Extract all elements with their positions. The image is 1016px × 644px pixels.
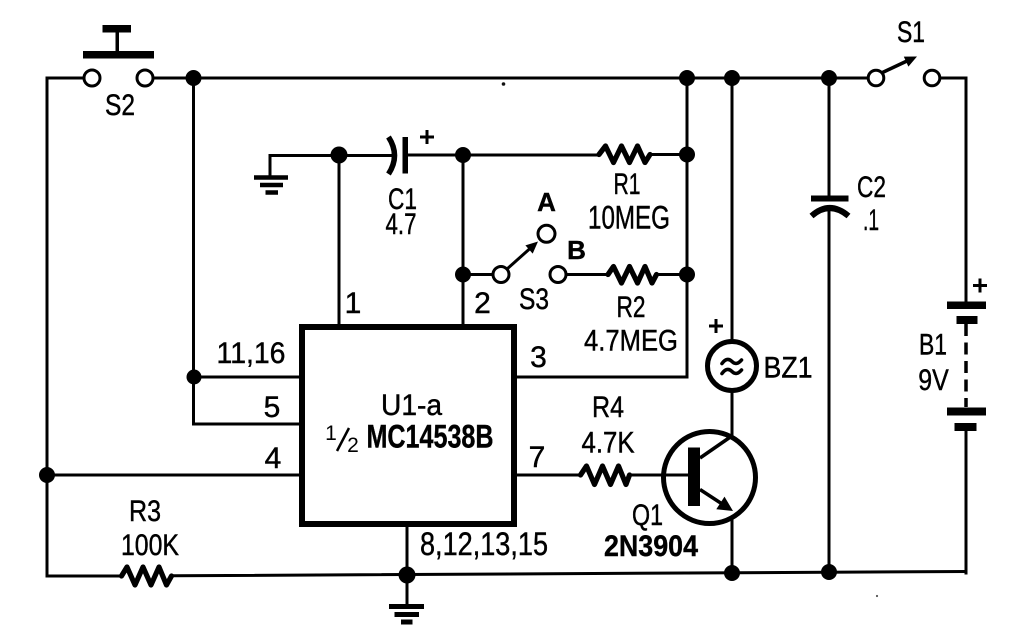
svg-text:4.7: 4.7: [386, 208, 417, 241]
svg-text:A: A: [537, 187, 556, 217]
svg-text:4.7K: 4.7K: [582, 427, 635, 460]
svg-text:100K: 100K: [121, 529, 179, 562]
svg-text:U1-a: U1-a: [381, 389, 442, 422]
svg-text:S1: S1: [897, 16, 925, 49]
svg-text:8,12,13,15: 8,12,13,15: [420, 526, 548, 562]
svg-text:2: 2: [474, 287, 491, 320]
svg-text:7: 7: [529, 441, 546, 474]
svg-text:MC14538B: MC14538B: [367, 419, 494, 455]
svg-text:R1: R1: [614, 168, 641, 201]
svg-text:9V: 9V: [918, 364, 949, 397]
svg-text:R2: R2: [617, 291, 646, 324]
svg-text:3: 3: [530, 341, 547, 374]
svg-text:B1: B1: [919, 329, 947, 362]
svg-text:.1: .1: [863, 204, 879, 237]
svg-text:5: 5: [264, 391, 281, 424]
svg-text:B: B: [567, 235, 586, 265]
svg-text:C2: C2: [857, 171, 886, 204]
svg-text:4.7MEG: 4.7MEG: [584, 325, 678, 358]
svg-text:R4: R4: [592, 391, 624, 424]
svg-text:Q1: Q1: [632, 499, 663, 532]
svg-text:2N3904: 2N3904: [604, 530, 698, 563]
svg-text:R3: R3: [129, 495, 161, 528]
svg-text:S3: S3: [519, 283, 549, 316]
svg-text:4: 4: [265, 442, 282, 475]
svg-text:1: 1: [325, 422, 337, 445]
svg-text:1: 1: [345, 287, 362, 320]
svg-text:S2: S2: [105, 89, 135, 122]
svg-text:10MEG: 10MEG: [588, 200, 670, 236]
svg-text:2: 2: [347, 434, 359, 457]
svg-text:11,16: 11,16: [217, 337, 286, 370]
svg-text:BZ1: BZ1: [764, 352, 813, 385]
